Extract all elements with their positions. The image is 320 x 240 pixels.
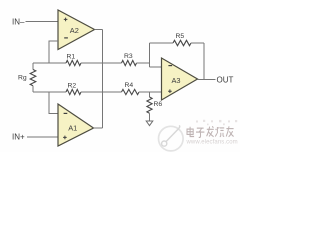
wire vertical A2 out to A1 out [102, 30, 104, 129]
resistor R6 [147, 92, 163, 121]
resistor R5 [173, 33, 191, 46]
resistor Rg [18, 63, 36, 92]
wire A1 -in stub [49, 92, 58, 114]
wire bottom rail mid segment [81, 91, 122, 93]
resistor R4 [122, 82, 139, 94]
wire IN+ to A1 +in [27, 136, 58, 138]
op-amp A2 [58, 10, 95, 50]
resistor R3 [122, 53, 137, 66]
svg-text:IN+: IN+ [12, 132, 25, 141]
char dian [187, 127, 194, 137]
wire R5 right vertical to output [203, 43, 205, 80]
watermark chinese text (vector approximation) [187, 126, 234, 137]
char you [226, 126, 233, 136]
op-amp A1 [58, 104, 94, 146]
svg-text:R6: R6 [154, 101, 163, 108]
svg-text:IN–: IN– [12, 17, 25, 26]
svg-text:R4: R4 [125, 82, 134, 89]
wire top rail mid segment [81, 62, 122, 64]
char fa [207, 126, 214, 136]
wire A3 output [198, 79, 216, 81]
svg-text:www.elecfans.com: www.elecfans.com [186, 139, 238, 145]
svg-text:A2: A2 [70, 26, 79, 35]
char zi [196, 128, 204, 137]
char shao [215, 127, 224, 137]
resistor R1 [66, 54, 81, 66]
wire A2 -in stub [49, 41, 58, 63]
wire IN- to A2 +in [26, 21, 59, 23]
watermark logo circle [159, 125, 184, 151]
svg-text:Rg: Rg [18, 75, 27, 82]
svg-text:R3: R3 [124, 53, 133, 60]
wire bottom rail right segment to A3 +in [139, 91, 162, 93]
wire top rail right segment to node [137, 62, 150, 64]
svg-text:R5: R5 [176, 33, 185, 40]
decorative specks (faint) [196, 120, 237, 125]
op-amp A3 [162, 58, 198, 100]
wire R3 node vertical [149, 43, 151, 67]
wire top rail left segment [33, 62, 66, 64]
svg-text:OUT: OUT [217, 76, 234, 85]
wire A1 output [94, 127, 103, 129]
svg-text:A1: A1 [68, 123, 77, 132]
svg-text:R2: R2 [68, 83, 77, 90]
svg-text:R1: R1 [67, 54, 76, 61]
wire A3 -in stub [150, 66, 162, 68]
wire bottom rail left segment [33, 91, 66, 93]
wire R5 rail left [150, 42, 174, 44]
resistor R2 [66, 83, 81, 95]
wire A2 output [95, 29, 103, 31]
svg-text:A3: A3 [172, 76, 181, 85]
ground [146, 121, 153, 126]
wire R5 rail right [191, 42, 204, 44]
